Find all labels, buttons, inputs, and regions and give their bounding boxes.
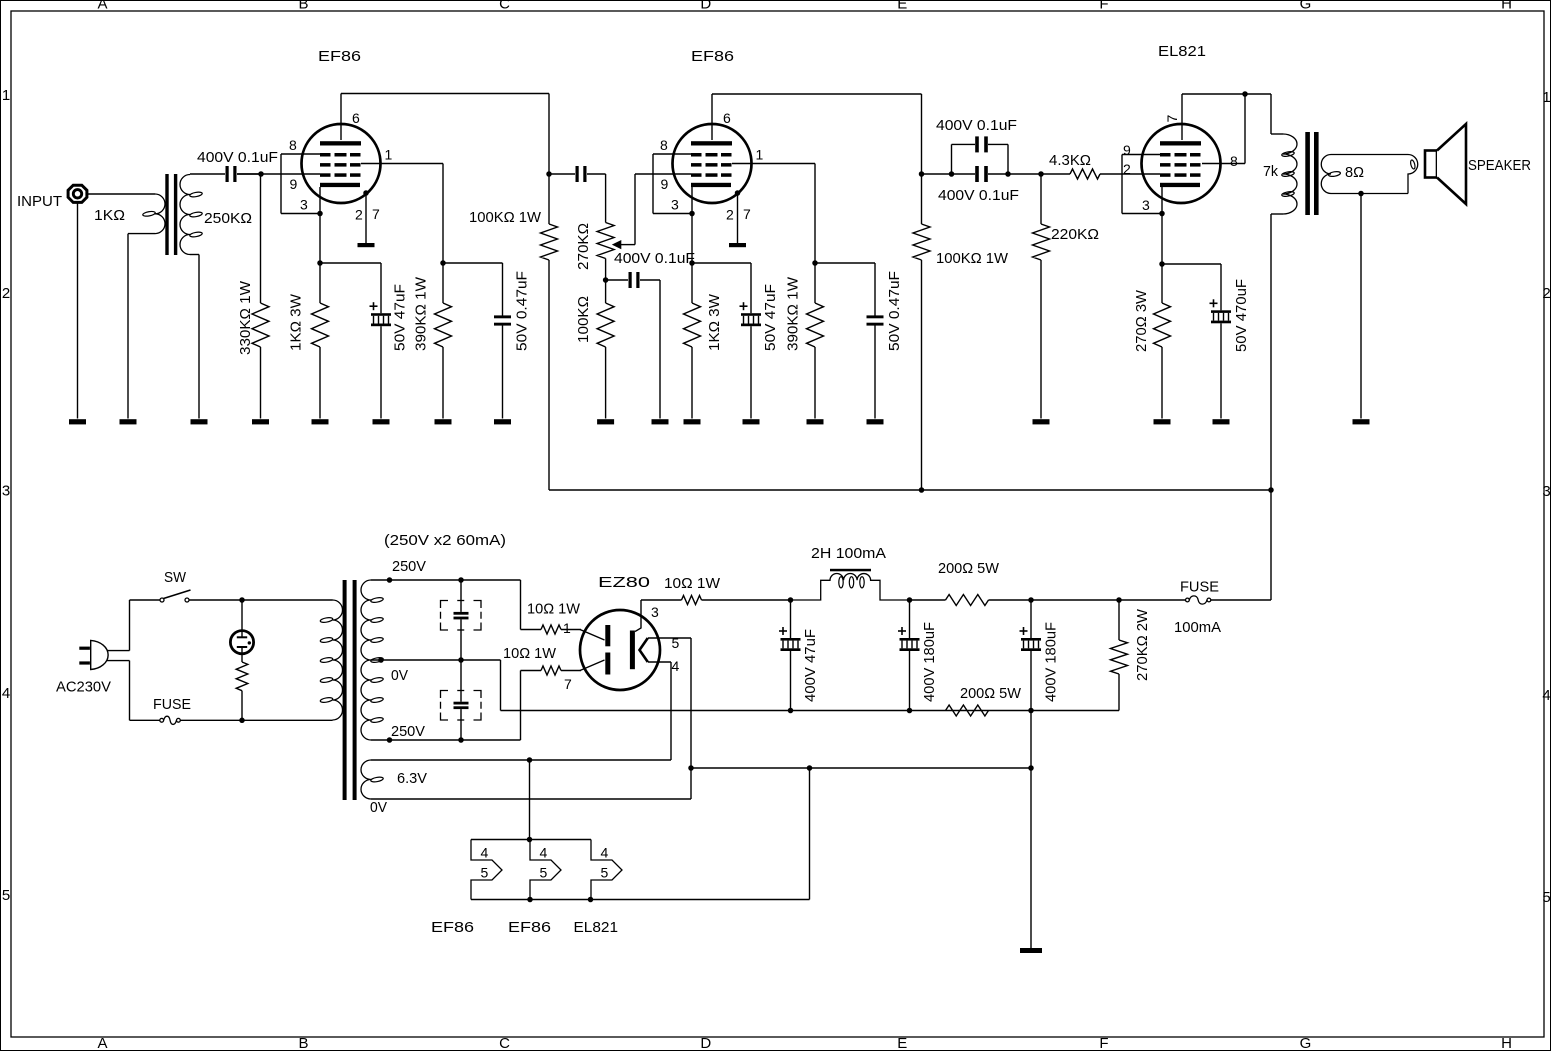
svg-text:0V: 0V: [370, 799, 387, 816]
svg-text:1: 1: [1542, 89, 1550, 106]
svg-text:2: 2: [1542, 285, 1550, 302]
svg-text:(250V x2 60mA): (250V x2 60mA): [384, 532, 506, 549]
svg-text:7: 7: [564, 676, 572, 692]
svg-text:D: D: [700, 1035, 711, 1051]
svg-text:50V 47uF: 50V 47uF: [762, 284, 779, 351]
svg-text:FUSE: FUSE: [153, 696, 191, 713]
svg-text:3: 3: [1142, 197, 1150, 213]
svg-text:E: E: [897, 0, 907, 13]
svg-text:G: G: [1300, 0, 1312, 13]
svg-text:4: 4: [540, 845, 548, 861]
svg-text:A: A: [97, 0, 107, 13]
svg-text:100KΩ 1W: 100KΩ 1W: [936, 250, 1009, 267]
svg-text:G: G: [1300, 1035, 1312, 1051]
svg-text:200Ω 5W: 200Ω 5W: [938, 560, 1000, 577]
svg-text:5: 5: [672, 635, 680, 651]
svg-text:200Ω 5W: 200Ω 5W: [960, 685, 1022, 702]
svg-text:7k: 7k: [1263, 163, 1278, 180]
svg-text:8: 8: [289, 137, 297, 153]
svg-text:390KΩ 1W: 390KΩ 1W: [785, 276, 802, 351]
svg-text:3: 3: [300, 197, 308, 213]
svg-text:7: 7: [1164, 115, 1180, 123]
svg-text:4.3KΩ: 4.3KΩ: [1049, 152, 1091, 169]
svg-text:EF86: EF86: [691, 48, 734, 65]
svg-text:400V 180uF: 400V 180uF: [921, 622, 938, 702]
svg-text:2: 2: [1123, 161, 1131, 177]
svg-text:6: 6: [723, 110, 731, 126]
svg-text:330KΩ 1W: 330KΩ 1W: [237, 280, 254, 355]
svg-text:9: 9: [290, 176, 298, 192]
svg-text:400V 0.1uF: 400V 0.1uF: [614, 250, 695, 267]
svg-text:A: A: [97, 1035, 107, 1051]
svg-text:250V: 250V: [392, 558, 426, 575]
svg-text:250V: 250V: [391, 723, 425, 740]
svg-text:E: E: [897, 1035, 907, 1051]
svg-text:2: 2: [2, 285, 10, 302]
svg-text:9: 9: [661, 176, 669, 192]
svg-text:SW: SW: [164, 569, 187, 586]
svg-text:H: H: [1501, 0, 1512, 13]
svg-text:AC230V: AC230V: [56, 679, 111, 696]
svg-text:1: 1: [2, 87, 10, 104]
svg-text:100KΩ: 100KΩ: [575, 296, 592, 343]
svg-text:INPUT: INPUT: [17, 193, 62, 210]
svg-text:270KΩ: 270KΩ: [575, 223, 592, 270]
svg-text:100KΩ 1W: 100KΩ 1W: [469, 209, 542, 226]
svg-text:EF86: EF86: [431, 919, 474, 936]
svg-text:EL821: EL821: [1158, 43, 1206, 60]
svg-text:4: 4: [1542, 687, 1550, 704]
svg-text:5: 5: [481, 865, 489, 881]
svg-text:10Ω 1W: 10Ω 1W: [503, 645, 557, 662]
svg-text:F: F: [1099, 1035, 1108, 1051]
svg-text:400V 47uF: 400V 47uF: [802, 629, 819, 702]
svg-text:4: 4: [2, 685, 10, 702]
svg-text:2: 2: [355, 207, 363, 223]
svg-text:5: 5: [2, 887, 10, 904]
svg-text:250KΩ: 250KΩ: [204, 210, 252, 227]
svg-text:7: 7: [372, 206, 380, 222]
svg-text:400V 0.1uF: 400V 0.1uF: [197, 149, 278, 166]
svg-text:3: 3: [651, 604, 659, 620]
svg-text:SPEAKER: SPEAKER: [1468, 157, 1531, 174]
svg-text:1: 1: [563, 620, 571, 636]
svg-text:3: 3: [2, 483, 10, 500]
svg-text:EF86: EF86: [318, 48, 361, 65]
svg-text:5: 5: [540, 865, 548, 881]
svg-text:10Ω 1W: 10Ω 1W: [664, 575, 721, 592]
svg-text:220KΩ: 220KΩ: [1051, 226, 1099, 243]
svg-text:3: 3: [1542, 483, 1550, 500]
svg-text:3: 3: [671, 197, 679, 213]
svg-text:B: B: [298, 1035, 308, 1051]
svg-text:4: 4: [601, 845, 609, 861]
svg-text:9: 9: [1123, 142, 1131, 158]
svg-text:50V 47uF: 50V 47uF: [392, 284, 409, 351]
svg-text:270KΩ 2W: 270KΩ 2W: [1134, 608, 1151, 681]
svg-text:5: 5: [601, 865, 609, 881]
svg-text:270Ω 3W: 270Ω 3W: [1133, 289, 1150, 352]
svg-text:4: 4: [481, 845, 489, 861]
svg-text:7: 7: [743, 206, 751, 222]
svg-text:2H 100mA: 2H 100mA: [811, 545, 886, 562]
svg-text:FUSE: FUSE: [1180, 579, 1219, 596]
svg-text:2: 2: [726, 207, 734, 223]
svg-text:B: B: [298, 0, 308, 13]
svg-text:H: H: [1501, 1035, 1512, 1051]
svg-text:8: 8: [1230, 153, 1238, 169]
svg-text:400V 0.1uF: 400V 0.1uF: [936, 117, 1017, 134]
svg-text:390KΩ 1W: 390KΩ 1W: [413, 276, 430, 351]
svg-text:C: C: [499, 1035, 510, 1051]
svg-text:5: 5: [1542, 889, 1550, 906]
svg-text:50V 470uF: 50V 470uF: [1233, 279, 1250, 352]
svg-text:10Ω 1W: 10Ω 1W: [527, 601, 581, 618]
svg-text:6: 6: [352, 110, 360, 126]
svg-text:1: 1: [385, 147, 393, 163]
svg-text:1: 1: [756, 147, 764, 163]
svg-text:1KΩ 3W: 1KΩ 3W: [706, 293, 723, 351]
svg-text:EZ80: EZ80: [598, 574, 650, 591]
svg-text:50V 0.47uF: 50V 0.47uF: [886, 271, 903, 351]
svg-text:50V 0.47uF: 50V 0.47uF: [514, 271, 531, 351]
svg-text:8: 8: [660, 137, 668, 153]
svg-text:F: F: [1099, 0, 1108, 13]
svg-text:1KΩ: 1KΩ: [94, 207, 125, 224]
svg-text:100mA: 100mA: [1174, 619, 1221, 636]
svg-text:1KΩ 3W: 1KΩ 3W: [288, 293, 305, 351]
svg-text:400V 180uF: 400V 180uF: [1043, 622, 1060, 702]
svg-text:D: D: [700, 0, 711, 13]
svg-text:6.3V: 6.3V: [397, 770, 427, 787]
svg-text:8Ω: 8Ω: [1345, 164, 1364, 181]
svg-text:EL821: EL821: [574, 919, 619, 936]
svg-text:400V 0.1uF: 400V 0.1uF: [938, 187, 1019, 204]
svg-text:EF86: EF86: [508, 919, 551, 936]
svg-text:C: C: [499, 0, 510, 13]
svg-text:0V: 0V: [391, 667, 408, 684]
svg-text:4: 4: [672, 658, 680, 674]
